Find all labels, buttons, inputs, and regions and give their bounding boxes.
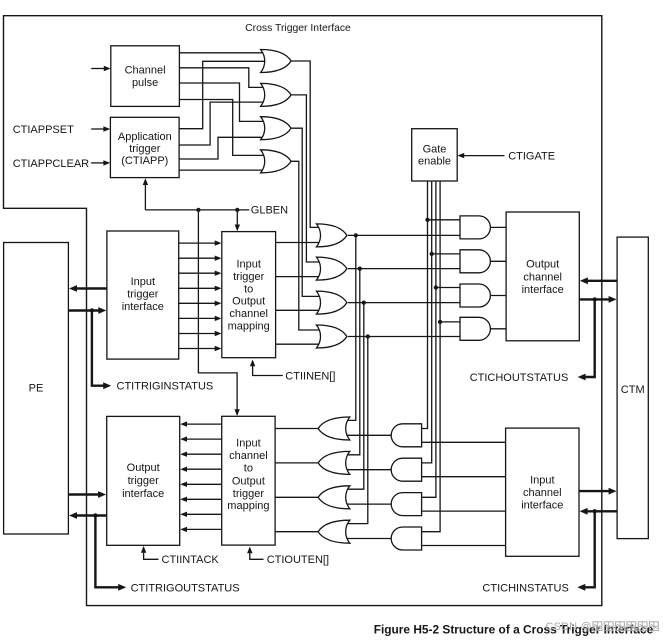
svg-text:CTIINTACK: CTIINTACK bbox=[162, 554, 220, 566]
wire gate enable 3 vertical bbox=[417, 181, 436, 497]
block PE bbox=[4, 243, 69, 535]
AND gate out 1 bbox=[460, 216, 490, 239]
block Input trigger interface bbox=[107, 231, 179, 359]
block Input channel interface bbox=[506, 428, 579, 556]
thick wire Input channel interface to CTM bbox=[579, 488, 617, 495]
wire CTITRIGINSTATUS bbox=[92, 311, 111, 390]
wire lower OR1 out to mapping bbox=[275, 428, 322, 430]
wire OR3 out to mid OR3 bbox=[291, 128, 323, 296]
svg-text:mapping: mapping bbox=[227, 500, 269, 512]
svg-text:mapping: mapping bbox=[228, 320, 270, 332]
trigger out arrow 2 bbox=[180, 436, 222, 441]
wire mid OR4 out to AND4 bbox=[348, 336, 465, 338]
block Output trigger interface bbox=[107, 416, 180, 545]
thick wire PE to Output trigger interface bbox=[68, 491, 106, 498]
label Cross Trigger Interface bbox=[245, 23, 351, 34]
svg-text:trigger: trigger bbox=[233, 271, 265, 283]
junction channel 1 bbox=[354, 233, 358, 237]
svg-text:Output: Output bbox=[232, 475, 265, 487]
wire AND3 out to Output channel interface bbox=[490, 295, 506, 297]
svg-text:CTIGATE: CTIGATE bbox=[508, 150, 555, 162]
label CTIINEN[] bbox=[285, 371, 335, 383]
wire gate enable 1 vertical bbox=[417, 181, 428, 429]
trigger arrow 7 to mapping bbox=[179, 331, 222, 336]
trigger out arrow 7 bbox=[180, 512, 222, 517]
wire gate enable 1 to AND1 bbox=[428, 219, 466, 221]
wire CTIOUTEN[] arrow bbox=[247, 547, 263, 560]
trigger arrow 3 to mapping bbox=[179, 271, 222, 276]
svg-text:CTICHOUTSTATUS: CTICHOUTSTATUS bbox=[470, 372, 569, 384]
svg-text:Input: Input bbox=[236, 259, 260, 271]
svg-text:CTIAPPSET: CTIAPPSET bbox=[13, 124, 74, 136]
svg-text:Output: Output bbox=[232, 296, 265, 308]
wire mapping out 3 to mid OR3 bbox=[276, 309, 324, 311]
junction CTICHOUTSTATUS bbox=[593, 297, 597, 301]
thick wire Output channel interface to CTM bbox=[579, 296, 616, 303]
junction gate enable 1 bbox=[425, 218, 429, 222]
input arrow to Channel pulse bbox=[91, 66, 110, 71]
svg-text:Input: Input bbox=[131, 276, 155, 288]
svg-text:GLBEN: GLBEN bbox=[251, 205, 288, 217]
junction gate enable 4 bbox=[438, 320, 442, 324]
wire CTIGATE arrow bbox=[457, 153, 504, 158]
wire AND1 out to Output channel interface bbox=[490, 226, 506, 228]
thick wire interface to PE bbox=[69, 285, 107, 292]
trigger out arrow 5 bbox=[180, 482, 222, 487]
OR gate top 1 bbox=[261, 50, 292, 73]
block Input trigger to Output channel mapping bbox=[222, 232, 276, 358]
trigger out arrow 3 bbox=[180, 452, 222, 457]
wire CP out2 to OR2 A bbox=[179, 68, 267, 88]
svg-text:CTIAPPCLEAR: CTIAPPCLEAR bbox=[13, 158, 89, 170]
wire CP out3 to OR3 A bbox=[179, 83, 267, 121]
trigger arrow 6 to mapping bbox=[179, 316, 222, 321]
wire gate enable 3 to AND3 bbox=[436, 287, 465, 289]
OR gate mid 4 bbox=[316, 325, 347, 348]
block Application trigger (CTIAPP) bbox=[110, 117, 179, 177]
wire AND4 out to Output channel interface bbox=[490, 328, 506, 330]
svg-text:Input: Input bbox=[236, 438, 260, 450]
AND gate out 4 bbox=[460, 317, 490, 340]
block Gate enable bbox=[412, 129, 458, 181]
OR gate mid 3 bbox=[316, 291, 347, 314]
junction gate enable 2 bbox=[430, 252, 434, 256]
wire channel 4 drop to lower OR bbox=[341, 337, 368, 524]
OR gate top 2 bbox=[261, 83, 292, 106]
trigger out arrow 8 bbox=[180, 527, 222, 532]
trigger arrow 1 to mapping bbox=[179, 240, 222, 245]
wire channel 3 drop to lower OR bbox=[341, 303, 364, 490]
wire CP out4 to OR4 A bbox=[179, 100, 267, 156]
OR gate low 1 bbox=[318, 417, 350, 440]
svg-text:Channel: Channel bbox=[125, 65, 166, 77]
wire mid OR3 out to AND3 bbox=[348, 302, 465, 304]
wire mapping out 2 to mid OR2 bbox=[276, 276, 324, 278]
svg-text:CTIINEN[]: CTIINEN[] bbox=[285, 371, 335, 383]
block CTM bbox=[617, 237, 648, 538]
wire lower AND3 out to OR3 bbox=[340, 503, 391, 505]
wire channel in 1 from interface bbox=[417, 441, 506, 443]
wire AT out3 to OR3 B bbox=[179, 137, 268, 159]
OR gate top 3 bbox=[261, 117, 292, 140]
trigger arrow 5 to mapping bbox=[179, 301, 222, 306]
svg-text:channel: channel bbox=[523, 271, 562, 283]
wire mid OR1 out to AND1 bbox=[348, 234, 465, 236]
svg-text:to: to bbox=[244, 283, 253, 295]
thick wire Output trigger interface to PE bbox=[69, 512, 107, 519]
svg-text:trigger: trigger bbox=[129, 143, 161, 155]
wire mapping out 4 to mid OR4 bbox=[276, 343, 324, 345]
wire OR4 out to mid OR4 bbox=[291, 161, 323, 330]
svg-text:CTITRIGINSTATUS: CTITRIGINSTATUS bbox=[117, 381, 214, 393]
svg-text:(CTIAPP): (CTIAPP) bbox=[121, 155, 168, 167]
label CTIGATE bbox=[508, 150, 555, 162]
thick wire CTM to Input channel interface bbox=[580, 508, 618, 515]
svg-text:trigger: trigger bbox=[127, 288, 159, 300]
OR gate mid 2 bbox=[316, 257, 347, 280]
wire channel in 3 from interface bbox=[417, 510, 506, 512]
svg-text:Application: Application bbox=[118, 131, 172, 143]
wire gate enable 4 vertical bbox=[417, 181, 441, 532]
svg-text:interface: interface bbox=[122, 488, 164, 500]
AND gate in 1 bbox=[391, 424, 421, 447]
wire lower OR4 out to mapping bbox=[275, 531, 322, 533]
trigger out arrow 6 bbox=[180, 497, 222, 502]
wire channel 1 drop to lower OR bbox=[341, 235, 356, 420]
OR gate low 4 bbox=[318, 520, 350, 543]
caption Figure H5-2 bbox=[374, 622, 654, 636]
wire GLBEN to CTIAPP bbox=[143, 178, 148, 210]
junction channel 2 bbox=[358, 266, 362, 270]
junction gate enable 3 bbox=[434, 285, 438, 289]
thick wire CTM to Output channel interface bbox=[580, 277, 617, 284]
svg-text:channel: channel bbox=[523, 487, 562, 499]
wire CTIINEN[] arrow bbox=[250, 360, 283, 376]
svg-text:interface: interface bbox=[522, 284, 564, 296]
OR gate mid 1 bbox=[316, 224, 347, 247]
wire CTITRIGOUTSTATUS bbox=[95, 516, 126, 591]
wire CTICHINSTATUS bbox=[577, 511, 594, 590]
label CTIINTACK bbox=[162, 554, 220, 566]
block Output channel interface bbox=[506, 212, 579, 341]
svg-text:trigger: trigger bbox=[128, 475, 160, 487]
svg-text:enable: enable bbox=[418, 156, 451, 168]
AND gate in 4 bbox=[391, 527, 421, 550]
svg-text:trigger: trigger bbox=[233, 488, 265, 500]
junction channel 3 bbox=[362, 300, 366, 304]
label CTITRIGINSTATUS bbox=[117, 381, 214, 393]
block Input channel to Output trigger mapping bbox=[222, 416, 275, 545]
svg-text:channel: channel bbox=[229, 308, 268, 320]
svg-text:Output: Output bbox=[127, 462, 160, 474]
wire mapping out 1 to mid OR1 bbox=[276, 242, 324, 244]
trigger arrow 8 to mapping bbox=[179, 346, 222, 351]
wire GLBEN to lower mapping box bbox=[198, 210, 239, 416]
OR gate low 2 bbox=[318, 451, 350, 474]
wire mid OR2 out to AND2 bbox=[348, 268, 465, 270]
wire channel in 2 from interface bbox=[417, 476, 506, 478]
svg-text:to: to bbox=[244, 463, 253, 475]
svg-text:Input: Input bbox=[530, 474, 554, 486]
label CTIOUTEN[] bbox=[267, 554, 329, 566]
svg-text:Cross Trigger Interface: Cross Trigger Interface bbox=[245, 23, 351, 34]
wire CTIAPPCLEAR arrow bbox=[91, 160, 110, 165]
AND gate in 2 bbox=[391, 458, 421, 481]
wire gate enable 2 to AND2 bbox=[432, 253, 465, 255]
AND gate out 2 bbox=[460, 250, 490, 273]
wire lower OR2 out to mapping bbox=[275, 462, 322, 464]
label CTICHOUTSTATUS bbox=[470, 372, 569, 384]
junction GLBEN branch B bbox=[196, 208, 200, 212]
watermark bbox=[546, 621, 659, 633]
label CTICHINSTATUS bbox=[482, 582, 568, 594]
svg-text:channel: channel bbox=[229, 450, 268, 462]
svg-text:pulse: pulse bbox=[132, 77, 158, 89]
wire channel in 4 from interface bbox=[417, 545, 506, 547]
trigger out arrow 4 bbox=[180, 467, 222, 472]
wire AT out4 to OR4 B bbox=[179, 169, 268, 171]
wire AND2 out to Output channel interface bbox=[490, 260, 506, 262]
svg-text:PE: PE bbox=[29, 383, 44, 395]
wire CP out1 to OR1 A bbox=[179, 52, 267, 54]
wire lower AND4 out to OR4 bbox=[340, 538, 391, 540]
wire gate enable 2 vertical bbox=[417, 181, 432, 463]
svg-text:CTIOUTEN[]: CTIOUTEN[] bbox=[267, 554, 329, 566]
wire CTIAPPSET arrow bbox=[91, 126, 110, 131]
svg-text:CTITRIGOUTSTATUS: CTITRIGOUTSTATUS bbox=[131, 582, 240, 594]
OR gate low 3 bbox=[318, 486, 350, 509]
label GLBEN bbox=[251, 205, 288, 217]
block Channel pulse bbox=[111, 46, 180, 107]
trigger out arrow 1 bbox=[180, 421, 222, 426]
label CTITRIGOUTSTATUS bbox=[131, 582, 240, 594]
wire CTIINTACK arrow bbox=[141, 546, 159, 559]
wire OR1 out to mid OR1 bbox=[291, 61, 323, 227]
thick wire PE to interface bbox=[68, 307, 106, 314]
svg-text:CTICHINSTATUS: CTICHINSTATUS bbox=[482, 582, 568, 594]
AND gate in 3 bbox=[391, 493, 421, 516]
wire OR2 out to mid OR2 bbox=[291, 95, 323, 262]
svg-text:CSDN @: CSDN @ bbox=[546, 621, 592, 633]
wire AT out2 to OR2 B bbox=[179, 102, 268, 145]
junction channel 4 bbox=[366, 334, 370, 338]
wire lower OR3 out to mapping bbox=[275, 496, 322, 498]
wire lower AND2 out to OR2 bbox=[340, 469, 391, 471]
svg-text:Output: Output bbox=[526, 259, 559, 271]
svg-text:Figure H5-2 Structure of a Cro: Figure H5-2 Structure of a Cross Trigger… bbox=[374, 622, 654, 636]
wire AT out1 to OR1 B bbox=[179, 61, 268, 128]
wire gate enable 4 to AND4 bbox=[440, 321, 465, 323]
junction CTITRIGINSTATUS bbox=[90, 308, 94, 312]
trigger arrow 4 to mapping bbox=[179, 286, 222, 291]
wire lower AND1 out to OR1 bbox=[340, 434, 391, 436]
svg-text:interface: interface bbox=[122, 301, 164, 313]
junction GLBEN branch A bbox=[235, 208, 239, 212]
label CTIAPPCLEAR bbox=[13, 158, 89, 170]
wire GLBEN into mapping box bbox=[235, 210, 240, 231]
wire channel 2 drop to lower OR bbox=[341, 269, 360, 455]
wire GLBEN horizontal bbox=[145, 209, 249, 211]
junction CTICHINSTATUS bbox=[593, 509, 597, 513]
svg-text:interface: interface bbox=[521, 499, 563, 511]
OR gate top 4 bbox=[261, 150, 292, 173]
AND gate out 3 bbox=[460, 284, 490, 307]
svg-text:CTM: CTM bbox=[621, 384, 645, 396]
trigger arrow 2 to mapping bbox=[179, 256, 222, 261]
wire CTICHOUTSTATUS bbox=[578, 299, 595, 380]
junction CTITRIGOUTSTATUS bbox=[93, 513, 97, 517]
svg-text:Gate: Gate bbox=[423, 143, 447, 155]
label CTIAPPSET bbox=[13, 124, 74, 136]
